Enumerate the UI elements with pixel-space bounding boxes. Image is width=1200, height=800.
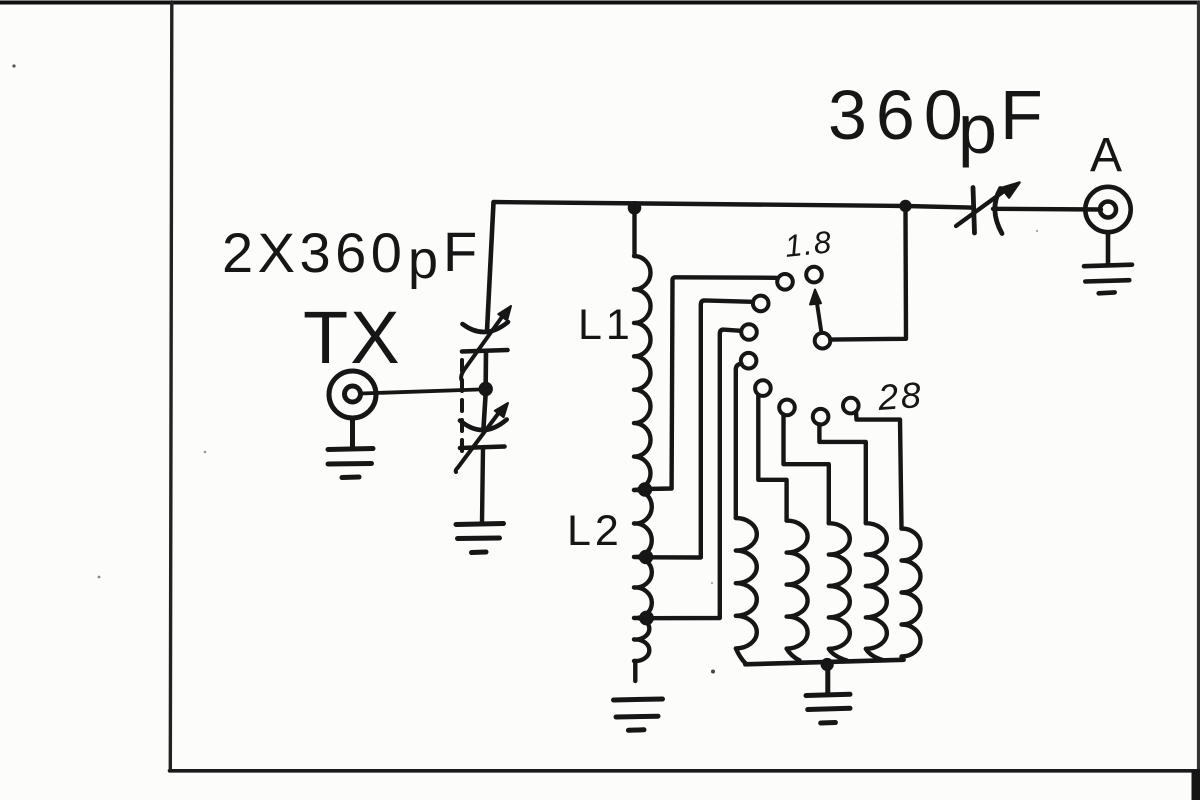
svg-text:p: p (408, 230, 438, 290)
capacitor C1 2X360pF lower section (456, 396, 508, 522)
svg-text:TX: TX (303, 296, 402, 379)
node junction top of switch feed (899, 200, 911, 212)
connector A (1085, 187, 1130, 232)
capacitor C1 2X360pF upper section (461, 306, 511, 383)
wire tap2 to switch contact 3 (647, 300, 753, 557)
svg-text:p: p (958, 90, 997, 168)
coil D (866, 523, 887, 660)
band switch S1 contacts (741, 267, 859, 425)
node junction TX feed into C1 (479, 382, 493, 396)
node junction on ground bus (821, 658, 834, 671)
node tap dot 1 on L1/L2 junction (638, 482, 652, 496)
wire ground bus under coils (745, 660, 903, 665)
inductor L2 (634, 490, 652, 681)
coil B (787, 521, 808, 661)
ground below connector A (1084, 233, 1132, 294)
band switch S1 rotor arrow (817, 300, 822, 333)
capacitor C1 gang dashed link (460, 360, 464, 458)
connector TX (329, 371, 376, 418)
wire top bus from C1 to C2 (494, 202, 972, 208)
wire top-left corner down to C1 (487, 203, 494, 332)
node junction top of L1 (628, 201, 642, 215)
capacitor C2 360pF (956, 183, 1020, 234)
svg-text:28: 28 (876, 374, 925, 418)
svg-text:L1: L1 (578, 301, 634, 349)
label 2X360pF (222, 220, 477, 290)
svg-text:F: F (443, 220, 477, 283)
inductor L1 (634, 214, 651, 490)
svg-text:1.8: 1.8 (783, 224, 834, 264)
svg-text:F: F (1000, 76, 1043, 154)
ground below C1 (456, 524, 504, 553)
svg-text:L2: L2 (567, 507, 623, 555)
wire contact 5 to coil A (736, 364, 742, 519)
wire C2 to connector A (993, 207, 1101, 212)
wire tap1 to switch contact 2 (646, 277, 776, 489)
coil C (829, 523, 850, 660)
ground below TX (328, 418, 373, 478)
svg-text:2X360: 2X360 (222, 221, 406, 284)
wire contact 8 to coil D (819, 424, 865, 523)
svg-text:360: 360 (828, 76, 972, 154)
ground below L2 (614, 699, 663, 730)
wire rotor to top bus (830, 212, 906, 340)
coil A (736, 518, 757, 664)
frame (scan border, unlabeled decorative) (0, 1, 1200, 5)
label 360pF (828, 76, 1043, 168)
wire TX to C1 node (361, 390, 479, 394)
node tap dot 3 on L2 (639, 611, 654, 626)
wire contact 7 to coil C (784, 415, 829, 524)
coil E (902, 529, 921, 660)
wire contact 6 to coil B (758, 396, 786, 521)
node tap dot 2 on L2 (639, 550, 653, 564)
wire tap3 to switch contact 4 (648, 330, 742, 619)
scan speckles (12, 64, 1038, 673)
ground below coil bus (806, 666, 850, 723)
wire contact 9 to coil E (856, 412, 902, 529)
svg-text:A: A (1090, 129, 1122, 182)
